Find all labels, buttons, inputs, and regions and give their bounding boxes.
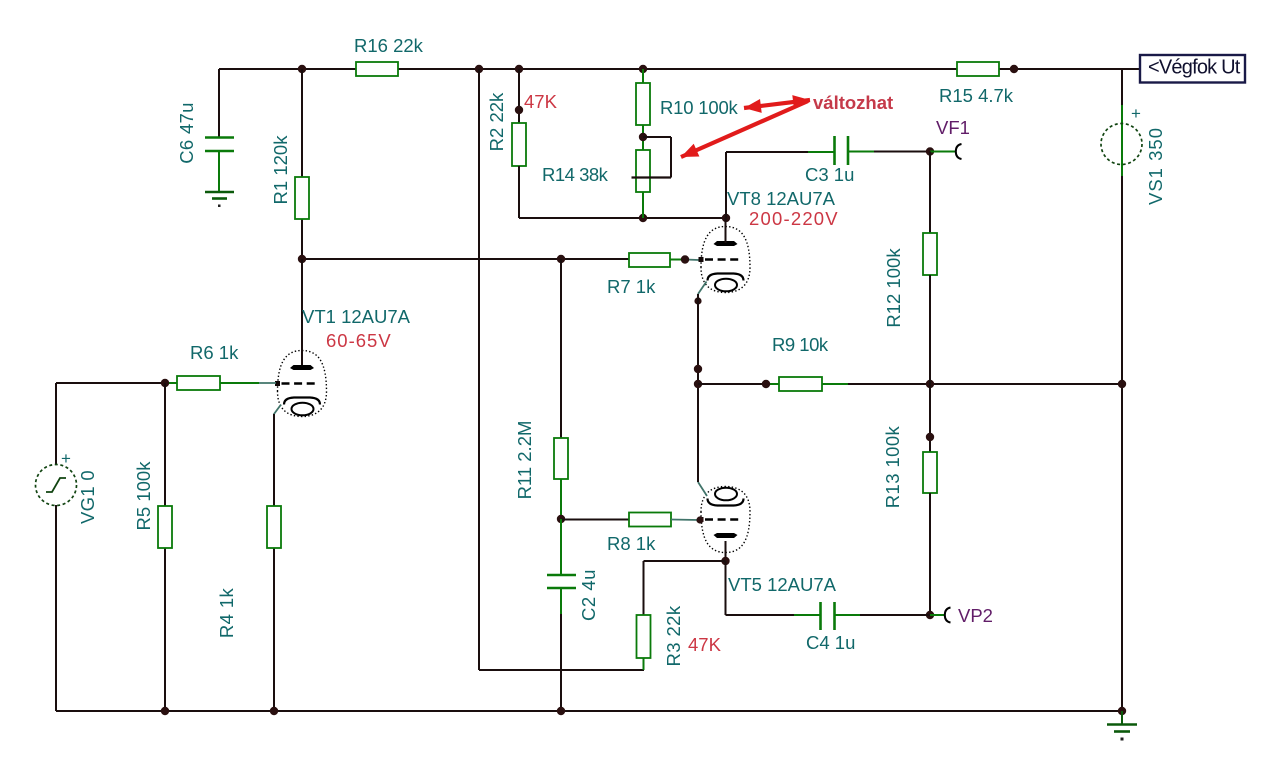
node top rail / R1 xyxy=(298,65,306,73)
wire R6 right lead xyxy=(220,382,276,384)
capacitor C6 xyxy=(205,138,234,152)
tube VT1 xyxy=(275,351,327,417)
wire R4 column xyxy=(273,414,275,711)
svg-text:R2 22k: R2 22k xyxy=(486,92,507,151)
wire VT1 anode xyxy=(301,259,303,365)
wire R13 top xyxy=(929,384,931,452)
wire R8 row xyxy=(561,519,629,521)
wire VT8-VT5 cathode column xyxy=(697,294,699,482)
svg-text:R13 100k: R13 100k xyxy=(882,425,903,508)
label R11 2.2M xyxy=(514,421,535,500)
node top rail / R2 xyxy=(515,65,523,73)
source VS1 circle xyxy=(1101,124,1142,165)
terminal VP2 arc xyxy=(945,608,951,623)
node R1 bottom xyxy=(298,255,306,263)
svg-text:R7 1k: R7 1k xyxy=(607,276,656,297)
tube VT8 xyxy=(699,227,751,293)
wire C6 column top xyxy=(218,69,220,138)
svg-text:R15 4.7k: R15 4.7k xyxy=(939,85,1014,106)
capacitor C2 xyxy=(547,575,576,588)
label 47K upper xyxy=(524,91,558,112)
resistor R16 xyxy=(356,62,398,76)
resistor R3 xyxy=(637,615,651,658)
wire VT5 anode node xyxy=(721,557,729,565)
wire R13 bottom xyxy=(929,493,931,615)
tube VT5 xyxy=(699,487,751,553)
label R5 100k xyxy=(133,461,154,531)
wire C4 right xyxy=(835,614,931,616)
node R14 bottom xyxy=(639,214,647,222)
wire C3 right xyxy=(848,151,930,153)
ground symbol right xyxy=(1107,711,1137,741)
node R9/VS1 junction xyxy=(1118,380,1126,388)
wire C2 bottom xyxy=(560,588,562,711)
svg-text:C2 4u: C2 4u xyxy=(578,569,599,621)
wire R11 top xyxy=(560,259,562,438)
svg-text:60-65V: 60-65V xyxy=(326,330,392,351)
wire VG1 top xyxy=(55,383,57,465)
svg-text:+: + xyxy=(61,449,71,468)
wire R10-R14 link xyxy=(642,125,644,150)
label VS1 plus xyxy=(1131,104,1141,123)
label 60-65V xyxy=(326,330,392,351)
label C3 1u xyxy=(805,164,854,185)
label R10 100k xyxy=(660,97,739,118)
svg-text:R1 120k: R1 120k xyxy=(270,135,291,205)
node VT8 anode corner xyxy=(722,214,730,222)
wire R2 top xyxy=(518,69,520,123)
svg-text:R8 1k: R8 1k xyxy=(607,533,656,554)
resistor R11 xyxy=(554,438,568,479)
svg-text:R6 1k: R6 1k xyxy=(190,342,239,363)
wire R7 right lead xyxy=(670,259,699,262)
svg-text:VS1 350: VS1 350 xyxy=(1145,127,1166,205)
label valtozhat xyxy=(813,92,893,113)
node cathode upper xyxy=(694,365,702,373)
arrow valtozhat short xyxy=(744,95,810,113)
wire bottom ground rail xyxy=(56,710,1122,712)
potentiometer R14 xyxy=(636,150,650,192)
wire top B+ rail xyxy=(219,68,1141,70)
node VP2 xyxy=(926,611,934,619)
wire VT8 anode xyxy=(725,218,727,243)
label VP2 xyxy=(958,605,993,626)
wire R12 bottom xyxy=(929,275,931,384)
svg-text:R16 22k: R16 22k xyxy=(354,35,424,56)
wire R11 bottom xyxy=(560,479,562,519)
label 47K lower xyxy=(688,634,722,655)
svg-text:C4 1u: C4 1u xyxy=(806,632,855,653)
node cathode lower xyxy=(694,380,702,388)
label R15 4.7k xyxy=(939,85,1014,106)
node rail/ground xyxy=(1118,707,1126,715)
svg-text:R9 10k: R9 10k xyxy=(772,334,829,355)
wire VS1 column upper xyxy=(1121,69,1123,711)
wire anode to R3 xyxy=(644,561,726,615)
wire anode to C4 riser xyxy=(725,561,727,615)
node R9 left xyxy=(762,380,770,388)
resistor R10 xyxy=(636,83,650,125)
label C6 47u xyxy=(176,102,197,163)
svg-text:VP2: VP2 xyxy=(958,605,993,626)
node R9/R12 junction xyxy=(926,380,934,388)
capacitor C3 xyxy=(835,136,849,165)
svg-text:C3 1u: C3 1u xyxy=(805,164,854,185)
svg-text:R5 100k: R5 100k xyxy=(133,461,154,531)
svg-text:R14 38k: R14 38k xyxy=(542,164,609,185)
node R11 top xyxy=(557,255,565,263)
node R10/R14 xyxy=(639,133,647,141)
resistor R15 xyxy=(957,62,999,76)
svg-text:VT8 12AU7A: VT8 12AU7A xyxy=(727,188,836,209)
capacitor C4 xyxy=(821,602,835,630)
node rail/C2 xyxy=(557,707,565,715)
wire grid row y259 xyxy=(302,258,629,260)
wire R10 top lead xyxy=(642,69,644,83)
svg-text:R4 1k: R4 1k xyxy=(216,587,237,638)
node R15 right xyxy=(1010,65,1018,73)
wire C3 left xyxy=(726,151,834,153)
svg-text:+: + xyxy=(1131,104,1141,123)
wire R3 bottom lead xyxy=(643,658,645,670)
ground under C6 xyxy=(205,192,234,207)
resistor R8 xyxy=(629,513,671,527)
label R3 22k xyxy=(663,605,684,666)
node R13 top xyxy=(926,433,934,441)
svg-text:VF1: VF1 xyxy=(936,117,970,138)
label R6 1k xyxy=(190,342,239,363)
label VT8 12AU7A xyxy=(727,188,836,209)
svg-text:C6 47u: C6 47u xyxy=(176,102,197,163)
label R16 22k xyxy=(354,35,424,56)
wire R9 right xyxy=(822,383,1122,385)
node rail/R4 xyxy=(270,707,278,715)
node VT5 grid xyxy=(696,516,703,523)
node VF1 xyxy=(926,147,934,155)
wire R14 wiper loop xyxy=(632,137,672,178)
label R13 100k xyxy=(882,425,903,508)
label VF1 xyxy=(936,117,970,138)
wire VT5 cathode lead xyxy=(698,482,707,496)
label R14 38k xyxy=(542,164,609,185)
svg-text:VG1 0: VG1 0 xyxy=(77,470,98,524)
label R7 1k xyxy=(607,276,656,297)
arrow valtozhat long xyxy=(681,101,808,157)
node R5 top xyxy=(161,379,169,387)
node VT8 cathode xyxy=(694,297,701,304)
svg-text:R10 100k: R10 100k xyxy=(660,97,739,118)
resistor R6 xyxy=(177,376,220,390)
wire VF1 stub xyxy=(930,151,955,153)
resistor R13 xyxy=(923,452,937,493)
wire R2 bottom xyxy=(518,166,520,218)
svg-text:VT5 12AU7A: VT5 12AU7A xyxy=(728,574,837,595)
svg-text:VT1 12AU7A: VT1 12AU7A xyxy=(302,306,411,327)
wire feedback bottom horizontal xyxy=(479,669,644,671)
wire R5 column xyxy=(164,383,166,711)
source VG1 circle xyxy=(36,465,77,506)
resistor R2 xyxy=(512,123,526,166)
node VT8 grid xyxy=(681,255,689,263)
resistor R12 xyxy=(923,233,937,275)
wire C6 to ground xyxy=(218,151,220,192)
wire VT8 anode to C3 riser xyxy=(725,152,727,218)
svg-text:változhat: változhat xyxy=(813,92,893,113)
node R2 upper xyxy=(515,106,523,114)
label R9 10k xyxy=(772,334,829,355)
label R4 1k xyxy=(216,587,237,638)
resistor R5 xyxy=(158,506,172,548)
node R11/R8/C2 xyxy=(557,515,565,523)
svg-text:R12 100k: R12 100k xyxy=(883,248,904,328)
label VT5 12AU7A xyxy=(728,574,837,595)
wire R1 column xyxy=(301,69,303,259)
label R1 120k xyxy=(270,135,291,205)
wire R14 bottom lead xyxy=(642,192,644,218)
label VT1 12AU7A xyxy=(302,306,411,327)
resistor R4 xyxy=(267,506,281,548)
wire C4 left xyxy=(726,614,821,616)
svg-text:<Végfok Ut: <Végfok Ut xyxy=(1148,57,1241,79)
wire anode node horizontal xyxy=(519,217,726,219)
wire VT1 cathode lead xyxy=(274,405,281,441)
label R12 100k xyxy=(883,248,904,328)
svg-text:200-220V: 200-220V xyxy=(749,208,839,229)
label C4 1u xyxy=(806,632,855,653)
wire R8 right lead xyxy=(671,519,699,522)
terminal VF1 arc xyxy=(956,144,962,159)
label R2 22k xyxy=(486,92,507,151)
node top rail / long wire xyxy=(475,65,483,73)
label VS1 350 xyxy=(1145,127,1166,205)
label C2 4u xyxy=(578,569,599,621)
wire R9 row xyxy=(698,383,779,385)
node top rail / R10 xyxy=(639,65,647,73)
wire VP2 stub xyxy=(930,614,944,616)
svg-text:47K: 47K xyxy=(688,634,722,655)
output box Vegfok xyxy=(1140,55,1245,83)
wire VT8 cathode lead xyxy=(698,282,707,295)
label VG1 0 xyxy=(77,470,98,524)
wire C2 top xyxy=(560,519,562,575)
wire VF1 to R12 xyxy=(929,152,931,234)
resistor R9 xyxy=(779,377,822,391)
wire VT5 anode xyxy=(725,541,727,561)
node rail/R5 xyxy=(161,707,169,715)
wire long feedback vertical xyxy=(478,69,480,670)
svg-text:R11 2.2M: R11 2.2M xyxy=(514,421,535,500)
resistor R7 xyxy=(629,253,670,267)
svg-text:R3 22k: R3 22k xyxy=(663,605,684,666)
label VG1 plus xyxy=(61,449,71,468)
label 200-220V xyxy=(749,208,839,229)
label R8 1k xyxy=(607,533,656,554)
wire input row y383 xyxy=(56,382,177,384)
wire VG1 bottom xyxy=(55,505,57,711)
resistor R1 xyxy=(295,177,309,219)
svg-text:47K: 47K xyxy=(524,91,558,112)
